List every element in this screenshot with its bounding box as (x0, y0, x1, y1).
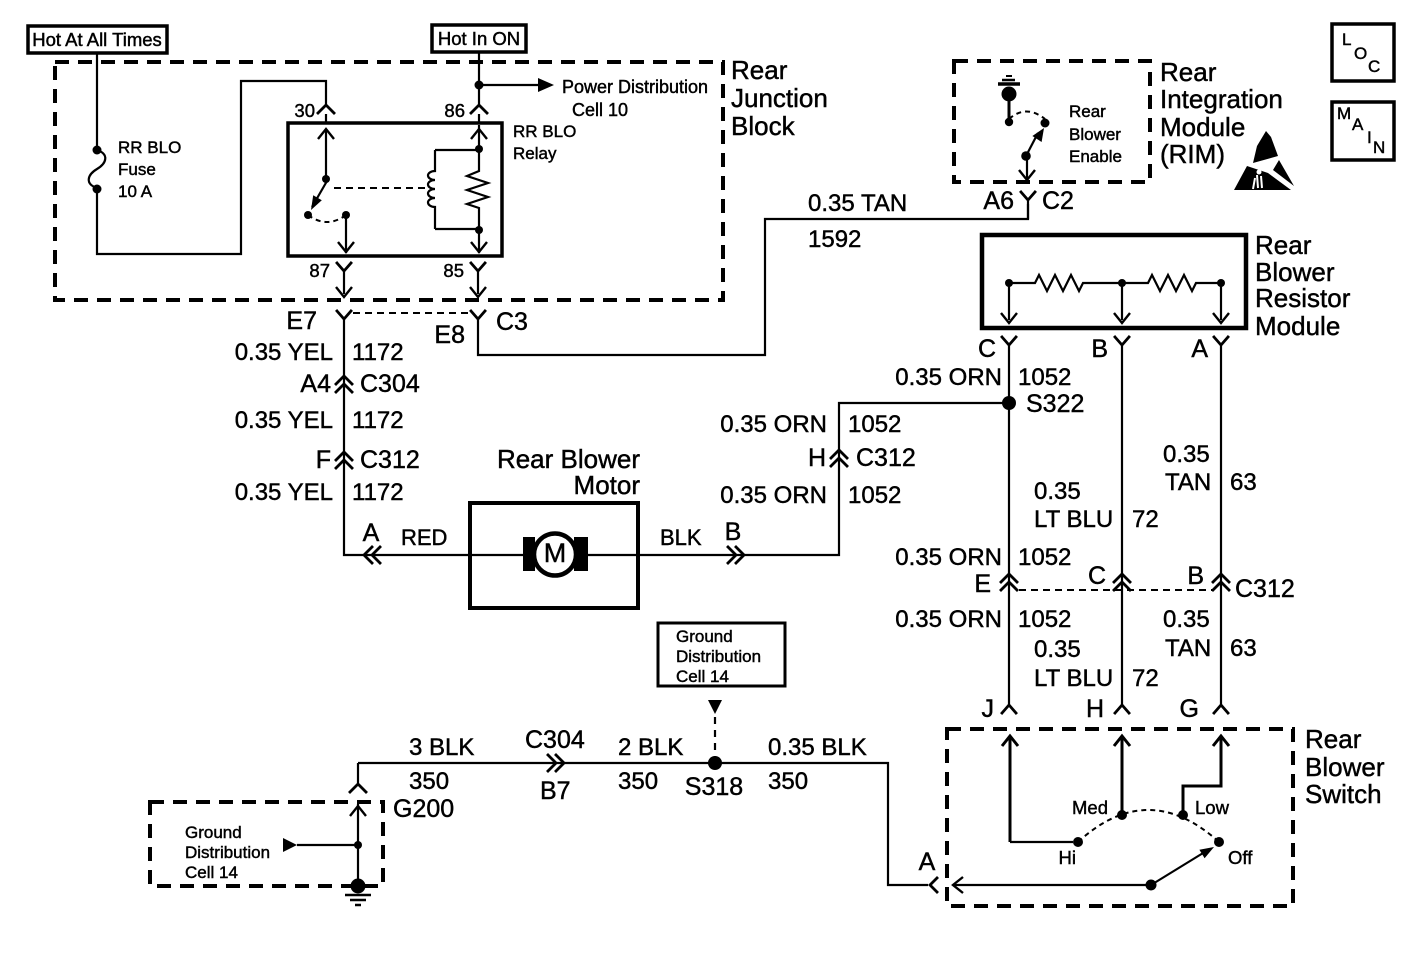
svg-text:1172: 1172 (352, 407, 404, 434)
svg-text:Ground: Ground (185, 823, 242, 842)
motor terminal B connector (725, 518, 744, 563)
svg-text:350: 350 (768, 768, 808, 795)
Rear Blower Resistor Module label (1255, 230, 1351, 341)
relay label (513, 122, 576, 163)
relay pin 85 inner leg (471, 230, 487, 253)
Rear Blower Resistor Module box (982, 235, 1246, 328)
svg-text:1052: 1052 (848, 411, 901, 438)
wire label 0.35 TAN 1592 (808, 190, 907, 253)
connector pin G (1180, 695, 1228, 723)
svg-text:85: 85 (443, 260, 464, 281)
svg-text:0.35 ORN: 0.35 ORN (895, 606, 1002, 633)
svg-text:I: I (1367, 128, 1372, 147)
svg-text:TAN: TAN (1165, 469, 1211, 496)
svg-text:O: O (1354, 44, 1367, 63)
wire from fuse to relay pin 30 (97, 81, 326, 254)
svg-text:86: 86 (444, 100, 465, 121)
svg-text:Cell 14: Cell 14 (676, 667, 729, 686)
svg-text:Module: Module (1255, 311, 1340, 341)
switch dashed travel arc (1078, 810, 1219, 842)
wire label 0.35 YEL 1172 (segment 2) (235, 407, 404, 434)
svg-text:0.35 TAN: 0.35 TAN (808, 190, 907, 217)
svg-text:Module: Module (1160, 112, 1245, 142)
svg-text:2 BLK: 2 BLK (618, 734, 683, 761)
svg-text:A: A (919, 848, 936, 876)
fuse RR BLO 10A (89, 138, 182, 201)
svg-text:Hot In ON: Hot In ON (438, 28, 520, 49)
ground feed arrow (283, 838, 362, 852)
resistor module pin A leg (1213, 283, 1229, 323)
Rear Blower Motor box (470, 503, 638, 608)
relay movable arm with arrow (311, 181, 327, 210)
svg-text:0.35: 0.35 (1034, 478, 1081, 505)
svg-text:Power Distribution: Power Distribution (562, 77, 708, 97)
svg-text:L: L (1342, 30, 1351, 49)
svg-text:H: H (808, 444, 826, 472)
svg-text:3 BLK: 3 BLK (409, 734, 474, 761)
in-line connector E C312 (974, 570, 1017, 598)
junction node at 86 branch (475, 81, 484, 90)
svg-text:Blower: Blower (1305, 752, 1385, 782)
relay actuation dashed link (334, 187, 426, 189)
wire label 3 BLK 350 (409, 734, 474, 795)
wire 0.35 YEL 1172 from E7 to motor A (344, 319, 470, 555)
relay coil resistor (467, 145, 488, 234)
relay coil (428, 150, 479, 229)
svg-text:A4: A4 (300, 370, 331, 398)
svg-text:C312: C312 (856, 444, 916, 472)
svg-text:H: H (1086, 695, 1104, 723)
svg-text:0.35: 0.35 (1163, 606, 1210, 633)
svg-text:10 A: 10 A (118, 182, 153, 201)
svg-text:C2: C2 (1042, 187, 1074, 215)
splice S318 (685, 756, 743, 801)
svg-text:G: G (1180, 695, 1199, 723)
svg-text:A: A (1352, 115, 1364, 134)
svg-text:BLK: BLK (660, 525, 702, 550)
svg-text:C312: C312 (360, 446, 420, 474)
wire label 0.35 TAN 63 (lower) (1163, 606, 1257, 662)
svg-text:1052: 1052 (1018, 606, 1071, 633)
svg-text:Rear: Rear (1069, 102, 1106, 121)
svg-text:30: 30 (294, 100, 315, 121)
svg-text:C304: C304 (360, 370, 420, 398)
svg-text:M: M (544, 538, 567, 568)
wire from Hot In ON (478, 52, 480, 104)
Rear Blower Motor label (497, 444, 640, 500)
relay contacts (304, 211, 312, 219)
wire B column 0.35 LT BLU 72 (1121, 345, 1123, 705)
svg-text:72: 72 (1132, 506, 1159, 533)
Rear Blower Enable switch dashed arc (1009, 112, 1045, 120)
switch position contacts Hi Med Low Off (1073, 810, 1224, 847)
svg-text:63: 63 (1230, 635, 1257, 662)
ground wire run (358, 763, 928, 885)
connector pin J (982, 695, 1017, 723)
relay switch common leg pin 30 (318, 129, 334, 183)
svg-text:Relay: Relay (513, 144, 557, 163)
ground G200 symbol (345, 879, 371, 906)
svg-text:Cell 10: Cell 10 (572, 100, 628, 120)
svg-text:Switch: Switch (1305, 779, 1382, 809)
RIM pin A6 inner leg (1019, 156, 1035, 180)
resistor module internal bus and resistors (1005, 275, 1225, 291)
Rear Integration Module dashed box (954, 61, 1150, 182)
svg-text:G200: G200 (393, 795, 454, 823)
svg-text:Enable: Enable (1069, 147, 1122, 166)
Rear Blower Switch dashed box (947, 729, 1293, 906)
svg-text:Motor: Motor (574, 470, 641, 500)
Rear Junction Block label (731, 55, 828, 141)
svg-text:63: 63 (1230, 469, 1257, 496)
pin 86 connector (444, 100, 487, 123)
relay RR BLO box (288, 123, 502, 256)
Power Distribution reference arrow (479, 77, 708, 120)
connector G200 (350, 784, 454, 823)
svg-text:B: B (1187, 562, 1204, 590)
in-line connector B C312 (1187, 562, 1294, 603)
svg-text:Fuse: Fuse (118, 160, 156, 179)
svg-text:LT BLU: LT BLU (1034, 506, 1113, 533)
Rear Blower Switch label (1305, 724, 1385, 809)
svg-text:0.35 ORN: 0.35 ORN (720, 411, 827, 438)
svg-text:0.35 BLK: 0.35 BLK (768, 734, 867, 761)
switch common wire with arrow to pin A (953, 877, 1151, 893)
svg-text:N: N (1373, 138, 1385, 157)
resistor module pin C leg (1001, 283, 1017, 323)
ground lead with up arrow (350, 804, 366, 880)
in-line connector C C312 (1088, 562, 1130, 590)
relay contact dashed arc (308, 215, 346, 222)
svg-text:Rear: Rear (1305, 724, 1362, 754)
svg-text:A: A (363, 519, 380, 547)
svg-text:Resistor: Resistor (1255, 283, 1351, 313)
svg-text:0.35 YEL: 0.35 YEL (235, 479, 333, 506)
svg-text:72: 72 (1132, 665, 1159, 692)
wire label 0.35 ORN 1052 (above E) (895, 544, 1071, 571)
connector pin A at switch (919, 848, 937, 892)
wire label 0.35 ORN 1052 (above S322) (895, 364, 1071, 391)
svg-text:0.35 ORN: 0.35 ORN (720, 482, 827, 509)
wire label 0.35 ORN 1052 (below H) (720, 482, 901, 509)
svg-text:1052: 1052 (1018, 544, 1071, 571)
pin 85 connector below relay (443, 260, 486, 297)
wire 0.35 TAN 1592 from C3 to RIM A6 (478, 204, 1028, 355)
svg-text:Distribution: Distribution (185, 843, 270, 862)
wire label 0.35 YEL 1172 (segment 3) (235, 479, 404, 506)
svg-text:C: C (978, 335, 996, 363)
wire 0.35 ORN 1052 from motor B to S322 (638, 403, 1009, 555)
svg-text:(RIM): (RIM) (1160, 139, 1225, 169)
ESD symbol (1234, 131, 1294, 190)
svg-text:E: E (974, 570, 991, 598)
svg-text:1052: 1052 (1018, 364, 1071, 391)
svg-text:TAN: TAN (1165, 635, 1211, 662)
svg-text:F: F (316, 446, 331, 474)
Rear Blower Enable switch arm (1021, 128, 1044, 161)
splice S322 (1002, 390, 1084, 418)
connector A6 C2 (983, 187, 1074, 219)
connector pin A (1191, 335, 1228, 363)
in-line connector H C312 (808, 444, 916, 472)
svg-text:Hi: Hi (1059, 847, 1076, 868)
wire from Hot At All Times to fuse (96, 53, 98, 149)
svg-text:1052: 1052 (848, 482, 901, 509)
Ground Distribution dashed box (bottom left) (150, 802, 383, 886)
Rear Blower Enable label (1069, 102, 1122, 166)
connector E7 (286, 307, 351, 335)
svg-text:S322: S322 (1026, 390, 1084, 418)
svg-text:LT BLU: LT BLU (1034, 665, 1113, 692)
switch G leg to Low (1183, 736, 1229, 815)
switch wiper arm (1146, 847, 1215, 891)
ground reference arrow to S318 (708, 700, 722, 757)
connector E8 C3 (434, 308, 528, 349)
svg-text:Junction: Junction (731, 83, 828, 113)
wire label 2 BLK 350 (618, 734, 683, 795)
svg-text:C304: C304 (525, 726, 585, 754)
svg-text:Hot At All Times: Hot At All Times (32, 29, 162, 50)
svg-text:0.35 ORN: 0.35 ORN (895, 544, 1002, 571)
svg-text:Cell 14: Cell 14 (185, 863, 238, 882)
svg-text:RED: RED (401, 525, 447, 550)
svg-text:Low: Low (1195, 797, 1230, 818)
svg-text:C: C (1368, 57, 1380, 76)
wire label 0.35 ORN 1052 (above H) (720, 411, 901, 438)
wire label 0.35 TAN 63 (upper) (1163, 441, 1257, 496)
connector pin H (1086, 695, 1129, 723)
svg-text:0.35 YEL: 0.35 YEL (235, 339, 333, 366)
svg-text:1172: 1172 (352, 479, 404, 506)
svg-text:Integration: Integration (1160, 84, 1283, 114)
svg-text:0.35: 0.35 (1034, 636, 1081, 663)
header box Hot At All Times (28, 26, 167, 53)
wire label 0.35 YEL 1172 (segment 1) (235, 339, 404, 366)
relay pin 86 inner leg (471, 125, 487, 149)
svg-text:Ground: Ground (676, 627, 733, 646)
svg-text:Rear: Rear (731, 55, 788, 85)
switch position labels (1059, 797, 1254, 868)
svg-text:J: J (982, 695, 995, 723)
svg-text:B: B (1091, 335, 1108, 363)
svg-text:A6: A6 (983, 187, 1014, 215)
svg-text:Blower: Blower (1069, 125, 1121, 144)
connector pin B (1091, 335, 1129, 363)
pin 87 connector below relay (309, 260, 352, 297)
svg-text:M: M (1337, 104, 1351, 123)
header box Hot In ON (432, 25, 526, 52)
Ground Distribution Cell 14 reference box (top) (658, 623, 785, 686)
relay pin 87 inner leg (338, 215, 354, 253)
connector pin C (978, 335, 1016, 363)
svg-text:0.35: 0.35 (1163, 441, 1210, 468)
RIM label (1160, 57, 1283, 169)
wire label 0.35 LT BLU 72 (upper) (1034, 478, 1159, 533)
wire down from ground run to G200 (357, 763, 359, 783)
svg-text:Off: Off (1228, 847, 1253, 868)
ground distribution label (185, 823, 270, 882)
LOC page box (1332, 24, 1394, 81)
resistor module pin B leg (1114, 283, 1130, 323)
svg-text:RR BLO: RR BLO (118, 138, 181, 157)
svg-text:87: 87 (309, 260, 330, 281)
svg-text:Block: Block (731, 111, 796, 141)
connector interface dashed E7-E8 (353, 312, 469, 314)
Rear Blower Enable switch contact (1041, 119, 1050, 128)
pin 30 connector (294, 100, 334, 123)
wire C to S322 (1008, 345, 1010, 705)
svg-text:1592: 1592 (808, 226, 861, 253)
svg-text:350: 350 (409, 768, 449, 795)
svg-text:350: 350 (618, 768, 658, 795)
C312 interface dashed line (1019, 589, 1212, 591)
motor terminal A connector (363, 519, 380, 563)
MAIN page box (1332, 102, 1394, 160)
svg-text:C312: C312 (1235, 575, 1295, 603)
motor M symbol (470, 534, 638, 576)
wire label 0.35 ORN 1052 (below E) (895, 606, 1071, 633)
switch H leg to Med (1114, 736, 1130, 815)
wire label 0.35 LT BLU 72 (lower) (1034, 636, 1159, 692)
svg-text:Distribution: Distribution (676, 647, 761, 666)
Rear Junction Block dashed border (55, 62, 723, 300)
svg-text:B7: B7 (540, 777, 571, 805)
svg-text:Med: Med (1072, 797, 1108, 818)
svg-text:1172: 1172 (352, 339, 404, 366)
svg-text:0.35 ORN: 0.35 ORN (895, 364, 1002, 391)
in-line connector F C312 (316, 446, 420, 474)
wire A column 0.35 TAN 63 (1220, 345, 1222, 705)
svg-text:B: B (725, 518, 742, 546)
svg-text:Rear: Rear (1255, 230, 1312, 260)
in-line connector C304 B7 (525, 726, 585, 805)
svg-text:C: C (1088, 562, 1106, 590)
RIM internal power feed symbol (998, 76, 1020, 126)
svg-text:S318: S318 (685, 773, 743, 801)
wire label 0.35 BLK 350 (768, 734, 867, 795)
svg-text:A: A (1191, 335, 1208, 363)
in-line connector A4 C304 (300, 370, 419, 398)
switch J leg to Hi (1002, 736, 1073, 842)
svg-text:RR BLO: RR BLO (513, 122, 576, 141)
svg-text:E7: E7 (286, 307, 317, 335)
svg-text:Rear: Rear (1160, 57, 1217, 87)
svg-text:0.35 YEL: 0.35 YEL (235, 407, 333, 434)
svg-text:C3: C3 (496, 308, 528, 336)
svg-text:E8: E8 (434, 321, 465, 349)
